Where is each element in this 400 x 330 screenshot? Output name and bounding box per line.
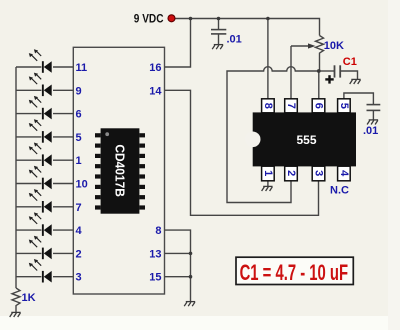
svg-text:7: 7 <box>76 202 82 214</box>
svg-text:14: 14 <box>149 85 162 97</box>
svg-text:C1: C1 <box>343 56 357 68</box>
svg-text:3: 3 <box>76 272 82 284</box>
svg-text:.01: .01 <box>227 34 242 46</box>
svg-text:4: 4 <box>338 170 350 177</box>
svg-text:8: 8 <box>262 103 274 109</box>
svg-text:15: 15 <box>149 272 161 284</box>
svg-text:N.C: N.C <box>330 185 349 197</box>
svg-text:2: 2 <box>285 170 297 176</box>
svg-text:5: 5 <box>338 103 350 109</box>
svg-text:1: 1 <box>262 170 274 176</box>
svg-text:1K: 1K <box>22 292 36 304</box>
svg-text:9 VDC: 9 VDC <box>134 13 164 26</box>
svg-text:7: 7 <box>285 103 297 109</box>
svg-text:16: 16 <box>149 62 161 74</box>
svg-text:555: 555 <box>296 133 316 147</box>
svg-text:8: 8 <box>155 225 161 237</box>
svg-text:3: 3 <box>313 170 325 176</box>
svg-text:C1 = 4.7 - 10 uF: C1 = 4.7 - 10 uF <box>240 260 348 285</box>
svg-text:1: 1 <box>76 155 82 167</box>
svg-text:5: 5 <box>76 132 82 144</box>
svg-text:11: 11 <box>76 62 88 74</box>
svg-text:2: 2 <box>76 248 82 260</box>
svg-text:.01: .01 <box>363 125 378 137</box>
svg-text:6: 6 <box>76 109 82 121</box>
svg-text:13: 13 <box>149 248 161 260</box>
svg-text:6: 6 <box>313 103 325 109</box>
svg-text:10K: 10K <box>324 40 344 52</box>
svg-text:9: 9 <box>76 85 82 97</box>
svg-text:4: 4 <box>76 225 83 237</box>
svg-text:10: 10 <box>76 179 88 191</box>
svg-text:CD4017B: CD4017B <box>112 144 127 196</box>
